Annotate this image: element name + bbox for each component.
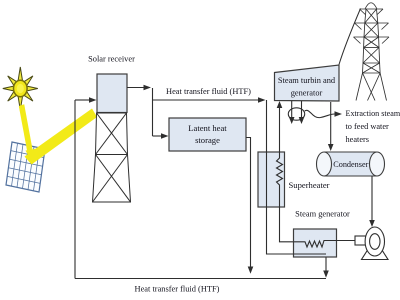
beam arrow at panel <box>26 149 38 164</box>
solar receiver box <box>97 74 127 113</box>
steam turbine trapezoid <box>275 65 340 101</box>
wire: pump to steam generator <box>336 240 356 242</box>
wire: turbine exhaust to condenser <box>330 102 332 144</box>
steam generator box <box>294 229 337 257</box>
extraction steam curve <box>305 110 335 117</box>
superheater box <box>258 152 285 207</box>
svg-text:Steam turbin and: Steam turbin and <box>278 76 336 85</box>
wire: HTF pipe through superheater to steam generator <box>267 100 327 271</box>
wire: condenser to pump <box>371 176 373 220</box>
generator ellipse under turbine <box>288 108 304 120</box>
svg-text:generator: generator <box>291 89 323 98</box>
pump <box>355 227 388 260</box>
svg-text:heaters: heaters <box>346 135 370 144</box>
turbine shaft arrows <box>291 101 293 117</box>
svg-text:Latent heat: Latent heat <box>188 123 227 133</box>
heliostat panel <box>6 142 45 192</box>
wire: junction drop <box>152 88 154 136</box>
receiver tower <box>93 113 131 202</box>
sun beam to panel <box>19 104 33 153</box>
sun <box>3 67 38 110</box>
wire: receiver outlet arrow <box>127 87 144 89</box>
steam generator internal line with coil <box>294 241 337 248</box>
wire: HTF main line <box>153 99 259 101</box>
power line to pylon <box>339 9 361 65</box>
superheater coil <box>277 152 283 187</box>
svg-text:Extraction steam: Extraction steam <box>346 109 400 118</box>
reflected beam to receiver <box>25 109 98 165</box>
latent heat storage box <box>169 118 246 151</box>
wire: coil down to steam generator <box>280 187 294 242</box>
transmission pylon <box>354 3 390 101</box>
svg-text:Solar receiver: Solar receiver <box>88 55 135 64</box>
svg-text:Steam generator: Steam generator <box>295 210 350 219</box>
condenser <box>317 152 385 176</box>
svg-text:Condenser: Condenser <box>333 160 368 169</box>
svg-text:to feed water: to feed water <box>346 122 390 131</box>
wire: storage drain to bottom line <box>246 138 251 267</box>
svg-text:Superheater: Superheater <box>289 180 330 190</box>
wire: bottom HTF return <box>75 278 326 280</box>
wire: HTF line inside generator (redrawn over box) <box>294 253 327 255</box>
wire: branch into storage <box>153 135 162 137</box>
svg-text:storage: storage <box>195 135 220 145</box>
svg-text:Heat transfer fluid (HTF): Heat transfer fluid (HTF) <box>135 284 220 293</box>
wire: left riser <box>74 100 76 279</box>
wire: receiver return inlet <box>75 99 89 101</box>
wire: steam up to turbine <box>279 108 281 152</box>
svg-text:Heat transfer fluid (HTF): Heat transfer fluid (HTF) <box>166 87 251 96</box>
